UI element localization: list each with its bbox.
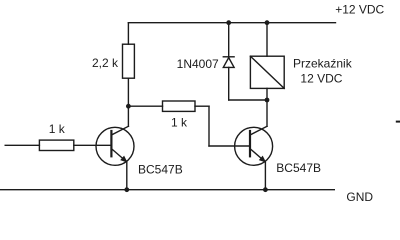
- svg-text:1 k: 1 k: [171, 115, 188, 129]
- junction node top rail / diode: [226, 20, 231, 25]
- junction node diode / relay / Q2 collector: [265, 98, 270, 103]
- diode D1 1N4007: [223, 23, 234, 100]
- wire Q1 emitter down to GND: [126, 162, 128, 190]
- svg-text:BC547B: BC547B: [138, 162, 183, 176]
- wire diode bottom to relay node: [229, 99, 267, 101]
- resistor R2 2,2 k: [123, 44, 135, 78]
- wire Q2 collector up to relay node: [266, 100, 268, 126]
- junction node A (2,2k / R3 / Q1 collector): [126, 104, 131, 109]
- wire node A to R3: [128, 105, 162, 107]
- wire +12V top rail: [128, 22, 335, 24]
- junction node Q1 emitter / GND: [124, 187, 129, 192]
- wire jog down: [208, 106, 210, 146]
- dash right edge: [397, 121, 400, 123]
- relay K1 coil: [250, 23, 284, 100]
- junction node Q2 emitter / GND: [263, 187, 268, 192]
- wire Q1 collector up to node A: [127, 106, 129, 126]
- svg-text:+12 VDC: +12 VDC: [335, 2, 384, 16]
- svg-text:12 VDC: 12 VDC: [300, 72, 342, 86]
- svg-text:2,2 k: 2,2 k: [92, 56, 119, 70]
- wire 2,2k bottom lead to node A: [127, 78, 129, 106]
- svg-text:BC547B: BC547B: [276, 161, 321, 175]
- junction node top rail / relay: [265, 20, 270, 25]
- wire R3 right lead: [195, 105, 209, 107]
- wire Q2 emitter down to GND: [264, 162, 266, 190]
- svg-text:Przekaźnik: Przekaźnik: [293, 57, 353, 71]
- transistor Q1 BC547B: [96, 126, 134, 165]
- resistor R3 1 k (middle): [163, 101, 196, 111]
- wire R1 to Q1 base: [74, 144, 112, 146]
- wire input lead left: [5, 144, 39, 146]
- svg-text:GND: GND: [346, 190, 373, 204]
- wire 2,2k top lead: [127, 23, 129, 45]
- wire jog to Q2 base: [209, 145, 250, 147]
- transistor Q2 BC547B: [235, 126, 273, 165]
- wire GND bottom rail: [0, 189, 334, 191]
- resistor R1 1 k (input): [39, 140, 73, 150]
- svg-text:1N4007: 1N4007: [177, 57, 219, 71]
- svg-text:1 k: 1 k: [49, 122, 66, 136]
